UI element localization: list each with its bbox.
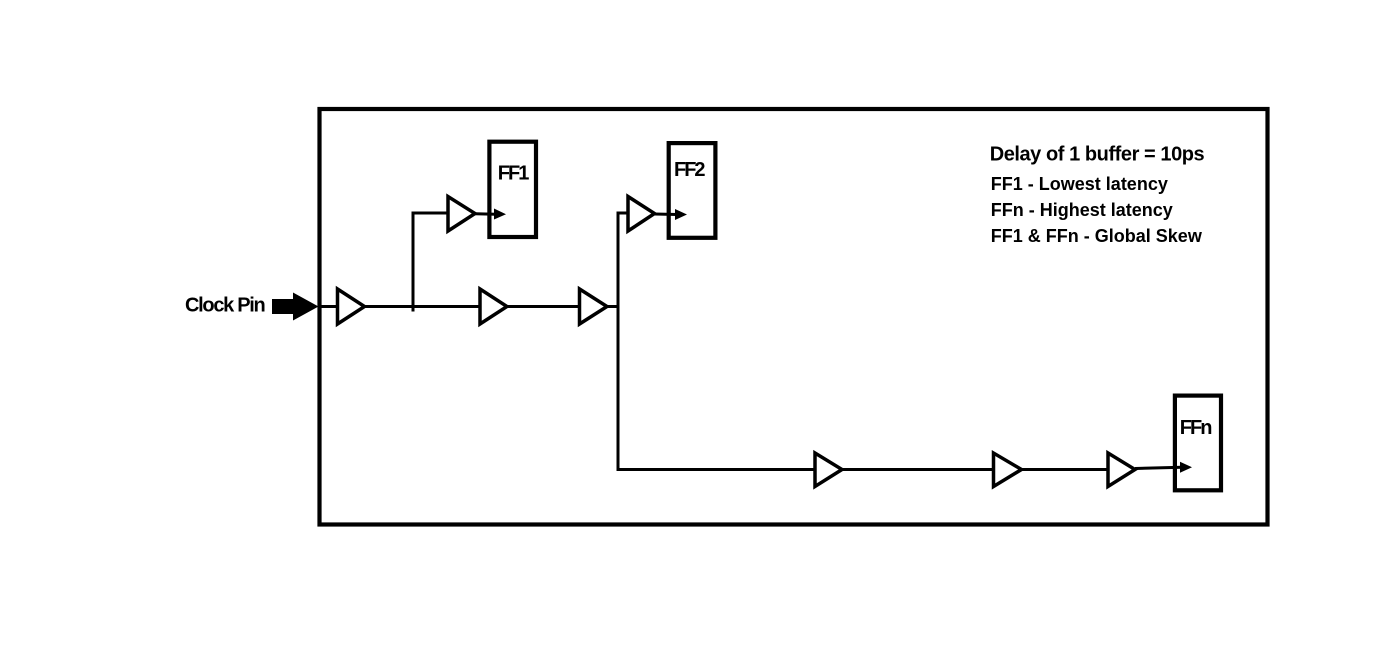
buffer B2	[480, 289, 507, 324]
wire B4 to FF1 with arrowhead	[475, 212, 496, 215]
wire trunk to FF2 buffer	[617, 212, 630, 215]
wire B3 to trunk junction	[607, 305, 620, 308]
buffer B7 (bottom branch)	[994, 453, 1022, 487]
buffer B4 (FF1 input)	[448, 197, 475, 232]
svg-text:Delay of 1 buffer = 10ps: Delay of 1 buffer = 10ps	[990, 143, 1205, 165]
buffer B5 (FF2 input)	[628, 197, 655, 232]
wire B7 to B8	[1022, 468, 1110, 471]
flip-flop FFn	[1175, 396, 1221, 491]
svg-text:Clock Pin: Clock Pin	[185, 295, 265, 317]
chip boundary box	[320, 109, 1268, 525]
wire clock pin to buffer B1	[321, 305, 338, 308]
svg-text:FF1: FF1	[498, 163, 529, 185]
buffer B1	[338, 289, 365, 324]
wire B2 to B3	[507, 305, 581, 308]
buffer B8 (FFn input)	[1108, 453, 1135, 487]
wire vertical trunk FF2 branch down to bottom branch	[618, 213, 816, 470]
svg-text:FF1 & FFn - Global Skew: FF1 & FFn - Global Skew	[991, 226, 1203, 246]
flip-flop FF1	[489, 142, 536, 237]
flip-flop FF2	[669, 143, 716, 238]
buffer B6 (bottom branch)	[815, 453, 842, 487]
svg-text:FF2: FF2	[674, 159, 705, 181]
clock pin input arrow	[272, 293, 319, 321]
wire B6 to B7	[842, 468, 995, 471]
svg-text:FFn - Highest latency: FFn - Highest latency	[991, 200, 1173, 220]
buffer B3	[580, 289, 608, 324]
svg-text:FF1 - Lowest latency: FF1 - Lowest latency	[991, 174, 1168, 194]
svg-text:FFn: FFn	[1180, 417, 1211, 439]
wire branch to FF1 buffer	[412, 212, 450, 215]
node branch junction to FF1	[412, 213, 415, 312]
wire B1 to B2	[365, 305, 482, 308]
wire B5 to FF2 with arrowhead	[655, 213, 678, 217]
wire B8 to FFn with arrowhead	[1135, 467, 1182, 468]
